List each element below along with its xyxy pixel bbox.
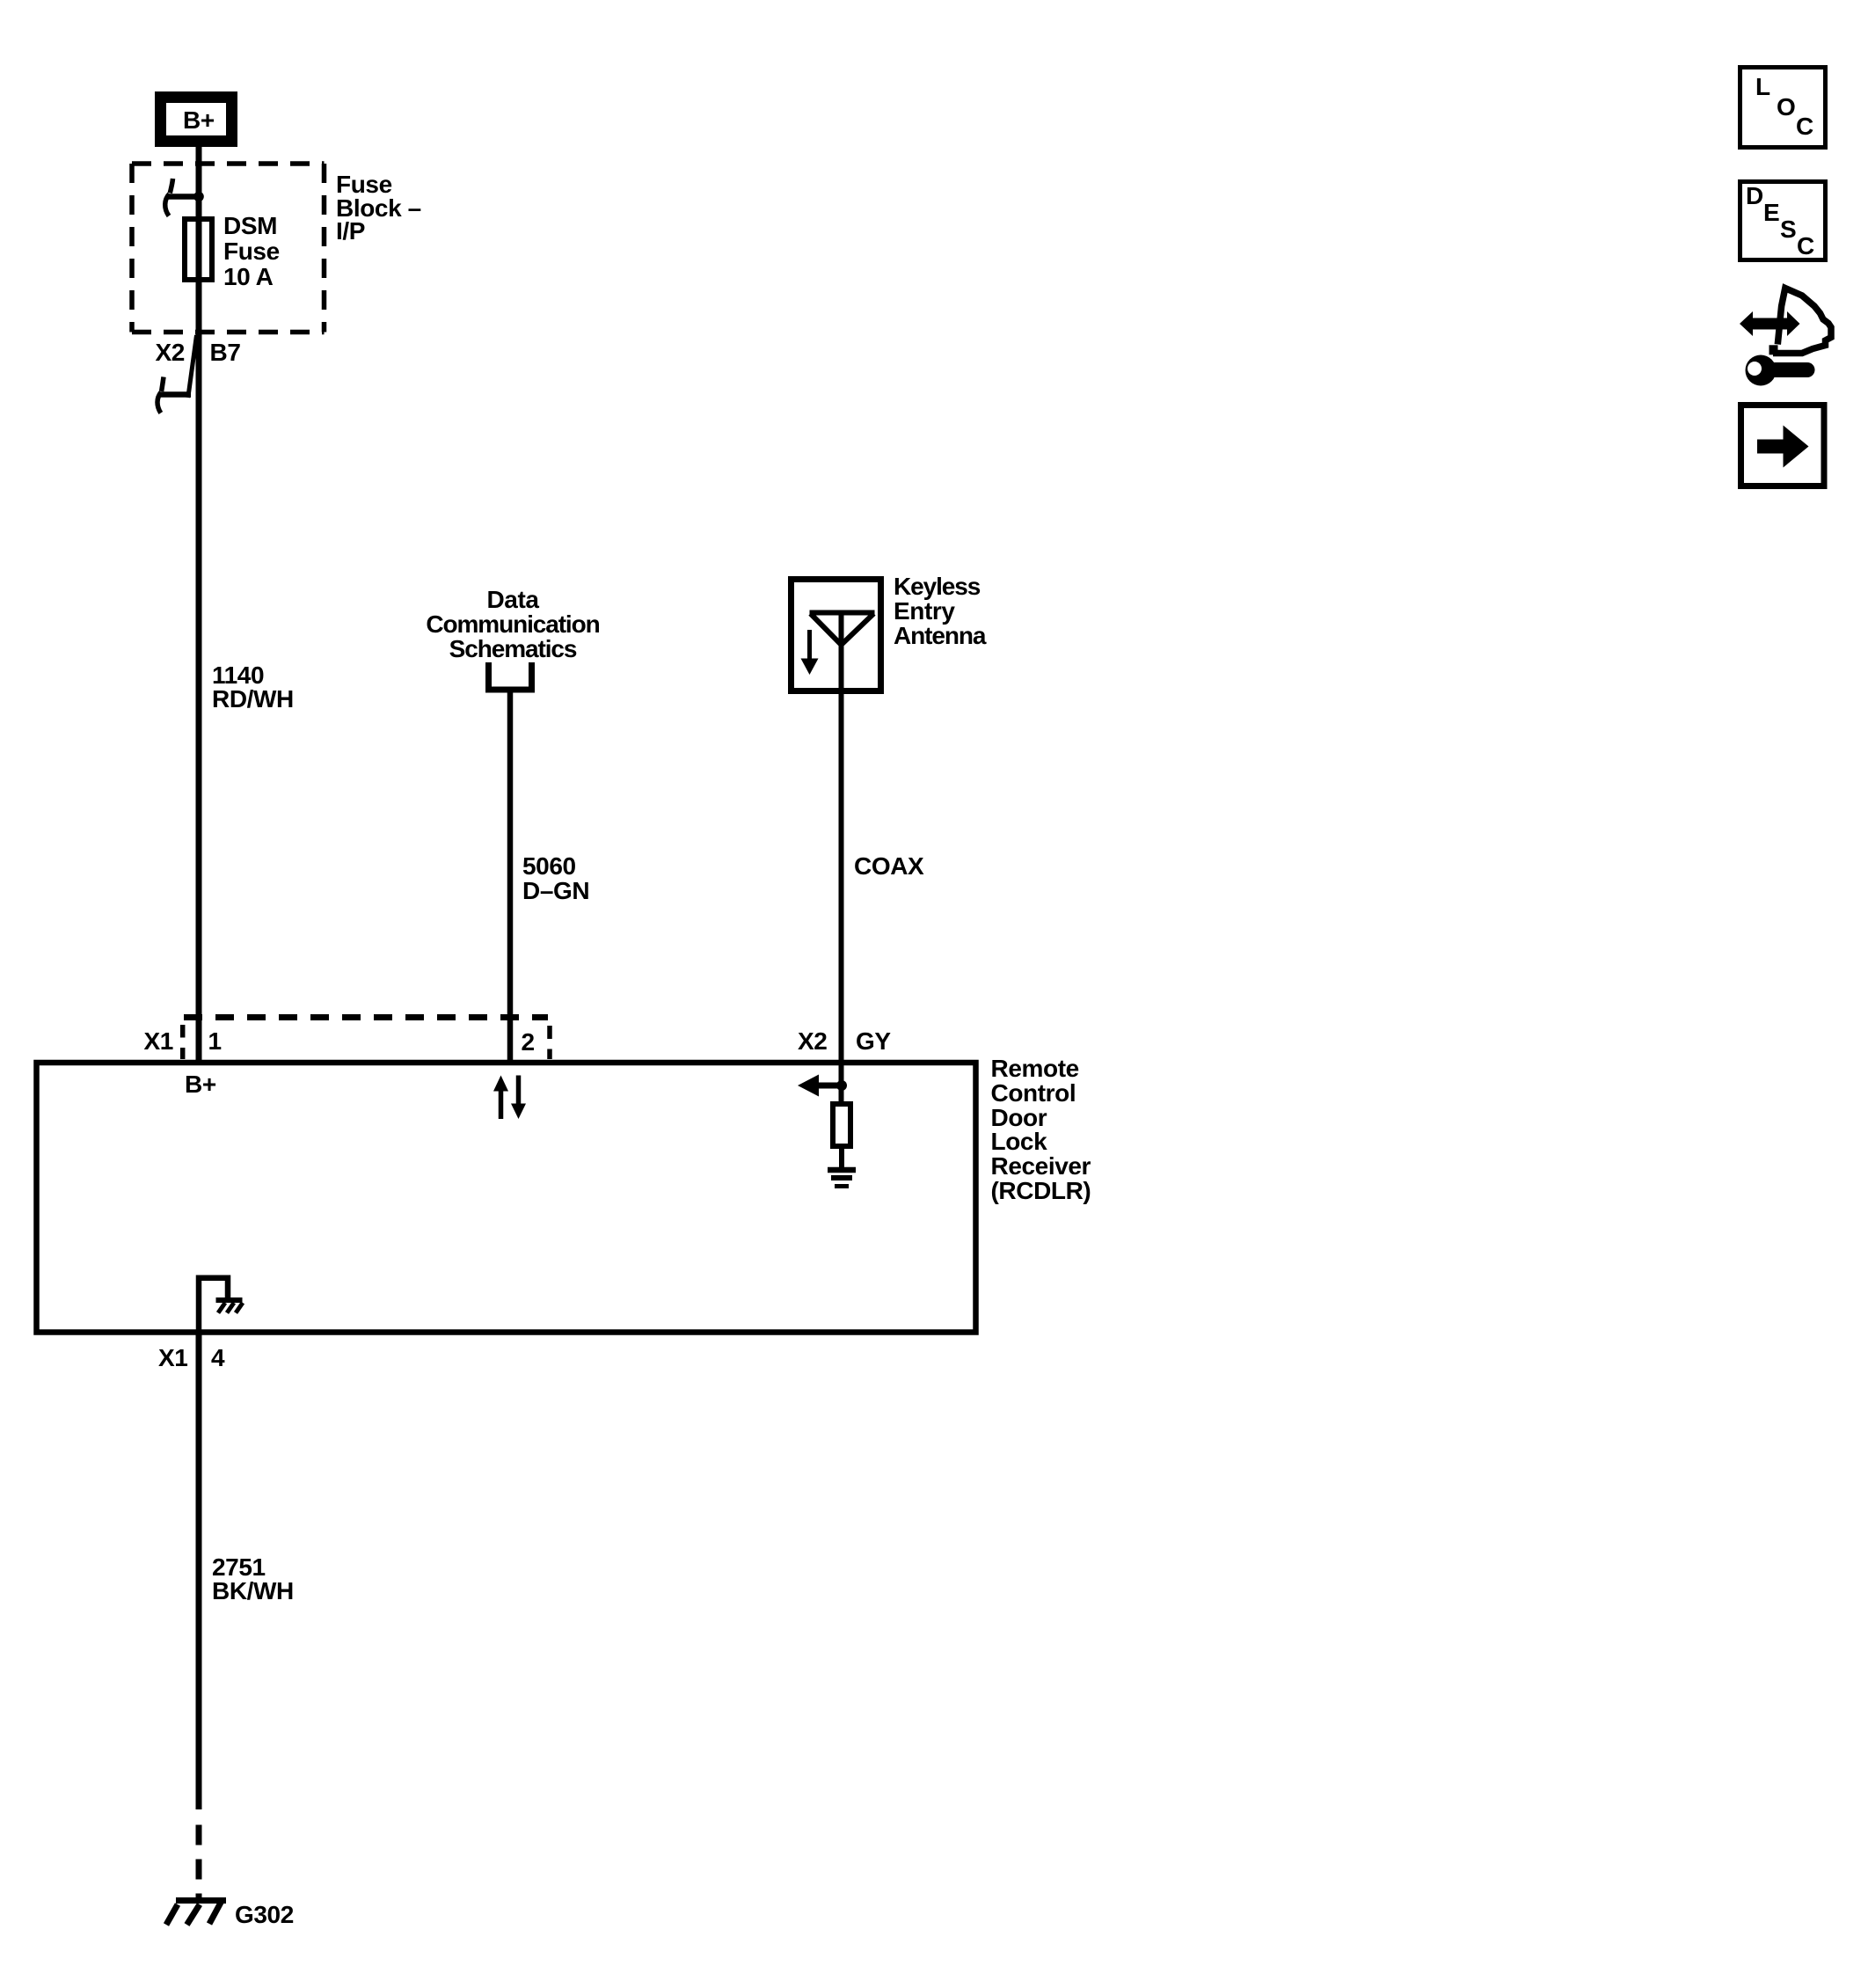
label: Keyless Entry Antenna	[894, 573, 987, 649]
down arrow (RF into antenna)	[801, 630, 819, 675]
svg-text:DSM: DSM	[223, 212, 277, 239]
svg-text:X2: X2	[798, 1027, 827, 1055]
svg-text:RD/WH: RD/WH	[212, 685, 294, 713]
wire COAX antenna to RCDLR	[839, 694, 844, 1063]
svg-text:Entry: Entry	[894, 597, 955, 625]
svg-text:4: 4	[211, 1344, 225, 1371]
svg-text:B7: B7	[210, 339, 241, 366]
label: DSM Fuse 10 A	[223, 212, 280, 290]
svg-text:5060: 5060	[522, 852, 576, 880]
svg-text:GY: GY	[856, 1027, 891, 1055]
label: 5060 D-GN	[522, 852, 589, 904]
B+ battery feed box	[161, 98, 232, 142]
dashed splice lead to G302	[196, 1825, 202, 1903]
icon: next-page arrow box	[1741, 406, 1825, 486]
svg-text:2: 2	[522, 1028, 535, 1056]
label: Data Communication Schematics	[426, 586, 599, 662]
junction dot on coax at RF arrow	[836, 1080, 847, 1091]
wire: resistor to signal ground	[839, 1146, 844, 1168]
fuse DSM 10A symbol	[185, 219, 212, 280]
svg-text:10 A: 10 A	[223, 263, 274, 290]
svg-text:X1: X1	[158, 1344, 187, 1371]
svg-text:G302: G302	[235, 1901, 294, 1928]
internal ground wire to chassis ground	[199, 1278, 243, 1332]
connector X2 pin B7 (fuse block output)	[156, 335, 241, 413]
svg-text:O: O	[1777, 93, 1795, 121]
svg-text:L: L	[1755, 73, 1770, 100]
fuse block dashed outline (Fuse Block - I/P)	[132, 164, 325, 333]
serial data up/down arrows	[493, 1076, 526, 1120]
svg-text:X1: X1	[144, 1027, 173, 1055]
wire: B+ feed down to RCDLR pin 1 (circuit 1140)	[196, 147, 202, 1063]
chassis ground G302	[166, 1901, 226, 1926]
svg-text:Schematics: Schematics	[449, 635, 577, 662]
connector X1 tick (right of pin 2)	[547, 1026, 552, 1059]
icon: diagnostic arrows + wrench	[1740, 289, 1831, 386]
junction dot at fuse feed	[193, 192, 204, 202]
off-page bracket: data schematics	[489, 662, 532, 690]
connector X1 body dashed line	[184, 1014, 548, 1020]
svg-text:S: S	[1780, 216, 1796, 243]
svg-text:Control: Control	[991, 1079, 1076, 1107]
svg-text:X2: X2	[156, 339, 185, 366]
svg-text:D: D	[1746, 182, 1763, 209]
wire: coax into terminating resistor	[839, 1063, 844, 1102]
svg-text:E: E	[1763, 199, 1779, 226]
svg-text:(RCDLR): (RCDLR)	[991, 1177, 1091, 1204]
signal ground (3-bar)	[828, 1170, 856, 1187]
svg-text:C: C	[1796, 113, 1813, 140]
pin labels: X1 4 (ground pin)	[158, 1344, 225, 1371]
connector terminal hook (fuse feed)	[165, 179, 199, 216]
svg-text:Communication: Communication	[426, 610, 599, 638]
svg-text:B+: B+	[183, 106, 215, 134]
pin labels: X2 GY	[798, 1027, 891, 1055]
Keyless Entry Antenna box	[792, 580, 881, 691]
antenna symbol	[810, 613, 875, 695]
icon: DESC reference box	[1740, 182, 1826, 260]
icon: LOC reference box	[1740, 68, 1826, 148]
RCDLR module box	[37, 1063, 976, 1333]
svg-text:1: 1	[208, 1027, 222, 1055]
RF input arrow (antenna signal)	[798, 1075, 842, 1097]
svg-text:Remote: Remote	[991, 1055, 1079, 1082]
svg-text:C: C	[1797, 232, 1814, 259]
label: 2751 BK/WH	[212, 1553, 294, 1604]
svg-text:Antenna: Antenna	[894, 622, 987, 649]
svg-text:BK/WH: BK/WH	[212, 1577, 294, 1604]
svg-text:COAX: COAX	[854, 852, 924, 880]
terminating resistor	[833, 1104, 850, 1146]
svg-text:Lock: Lock	[991, 1128, 1048, 1155]
svg-text:B+: B+	[185, 1071, 216, 1098]
svg-text:Receiver: Receiver	[991, 1152, 1091, 1180]
svg-text:Data: Data	[486, 586, 539, 613]
wire 5060 D-GN down to RCDLR pin 2	[507, 693, 514, 1063]
label: Fuse Block - I/P	[336, 171, 421, 245]
label: wire 1140 RD/WH	[212, 661, 294, 713]
svg-text:Keyless: Keyless	[894, 573, 981, 600]
svg-text:I/P: I/P	[336, 217, 365, 245]
pin labels: X1 1	[144, 1027, 222, 1055]
svg-text:Fuse: Fuse	[223, 238, 280, 265]
connector X1 tick (left of pin 1)	[180, 1025, 186, 1059]
label: Remote Control Door Lock Receiver (RCDLR)	[991, 1055, 1091, 1204]
svg-text:D–GN: D–GN	[522, 877, 589, 904]
wire 2751 BK/WH	[196, 1334, 202, 1809]
